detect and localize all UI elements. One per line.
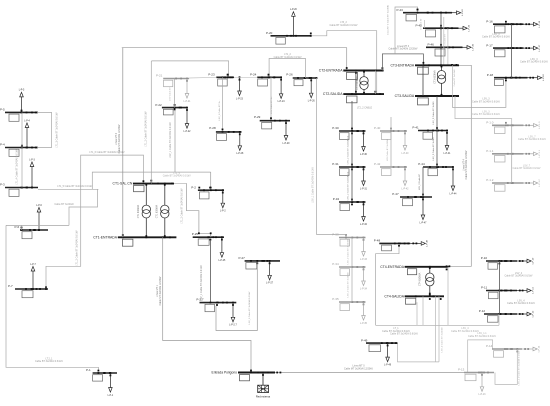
busbar CT1-ENTRADA bus (93, 234, 176, 246)
svg-text:P-3: P-3 (0, 183, 5, 187)
wire CT2 internal tie (355, 71, 357, 95)
wire CT2 tie 2 (374, 71, 376, 95)
label label cable sv (169, 86, 171, 101)
svg-text:CT2-SALIDA: CT2-SALIDA (323, 92, 343, 96)
label label cable c2 (271, 96, 273, 114)
wire long cable west (6, 225, 98, 370)
svg-text:LT1_5 Cable BT 3x240Al 0.6/1: LT1_5 Cable BT 3x240Al 0.6/1kV (57, 185, 93, 188)
wire cable P-10/P-11 (498, 261, 500, 291)
svg-text:Cable BT 3x240Al 0.6/1kV: Cable BT 3x240Al 0.6/1kV (482, 36, 510, 39)
wire cable SAL to P-25 (187, 183, 212, 237)
load node P-49 (361, 338, 398, 366)
busbar CT1-SAL.CN bus (113, 180, 174, 192)
svg-text:L-P-43: L-P-43 (462, 9, 464, 16)
svg-text:P-21: P-21 (156, 74, 163, 78)
svg-text:P-25: P-25 (192, 232, 199, 236)
svg-text:L-P-1.2: L-P-1.2 (539, 179, 541, 187)
svg-text:LT1_2 Cable BT 3x240Al 0.6/1k: LT1_2 Cable BT 3x240Al 0.6/1kV (76, 230, 79, 266)
supply point Entrada Polígono (212, 370, 275, 381)
label label LSV_4 d (507, 299, 535, 305)
wire CT3 tie 2 (452, 65, 454, 96)
wire cable gray col b (511, 154, 513, 183)
svg-text:P-20: P-20 (266, 31, 273, 35)
svg-text:L-P-46: L-P-46 (473, 43, 475, 50)
svg-text:LT2_2 CABLE: LT2_2 CABLE (357, 107, 373, 110)
svg-text:L-P-21: L-P-21 (184, 101, 192, 103)
svg-text:Cable BT 3x240Al 0.6/1kV: Cable BT 3x240Al 0.6/1kV (274, 56, 302, 59)
wire linea MT 3 CT2-CT3 (382, 54, 423, 71)
label label LSV_2a (346, 135, 349, 164)
svg-text:L-P-30: L-P-30 (360, 154, 368, 156)
svg-text:P-22: P-22 (155, 103, 162, 107)
wire cable LT bottom (376, 324, 499, 326)
wire P-6 stub (21, 225, 23, 230)
load node P-24 (250, 73, 285, 104)
load node P-13 (458, 368, 494, 396)
svg-text:L-P-1.0: L-P-1.0 (539, 121, 541, 129)
load node P-1 (86, 368, 117, 397)
wire cable riser N2 (424, 20, 426, 28)
wire cable rect1 top (152, 61, 229, 78)
wire CT4 salida down b (422, 296, 424, 325)
svg-text:Cable BT 3x240Al 0.6/1kV: Cable BT 3x240Al 0.6/1kV (472, 100, 500, 103)
svg-text:CT4-ENTRADA: CT4-ENTRADA (380, 265, 404, 269)
wire P-3 east cable (38, 188, 98, 190)
wire cable P-12 feed (498, 314, 500, 325)
load node P-2 (191, 185, 226, 212)
load node P-11 (481, 286, 535, 299)
transformer CT1 T2 (156, 184, 169, 238)
svg-text:Cable BT 3x240Al: Cable BT 3x240Al (54, 203, 74, 206)
svg-text:LSV_2 Cable BT 3x240Al: LSV_2 Cable BT 3x240Al (346, 239, 349, 264)
label label riser n2 (421, 18, 423, 30)
svg-text:CT4-SALIDA: CT4-SALIDA (384, 294, 404, 298)
wire CT3 internal tie (422, 65, 424, 96)
wire cable P-43 down (440, 13, 442, 66)
label linea MT 0 label (344, 365, 373, 371)
svg-text:P-12: P-12 (479, 309, 486, 313)
svg-text:P-31: P-31 (332, 162, 339, 166)
load node P-27 (239, 256, 281, 285)
wire cable to P-6 (6, 224, 69, 226)
wire cable riser CT3 a (443, 17, 445, 65)
svg-text:LSV Cable BT 3x..: LSV Cable BT 3x.. (271, 96, 273, 114)
svg-text:LSV_4 Cable BT 3x240Al: LSV_4 Cable BT 3x240Al (441, 327, 444, 352)
svg-text:P-28: P-28 (209, 126, 216, 130)
load node P-22 (155, 103, 191, 133)
svg-text:P-44: P-44 (418, 162, 425, 166)
svg-text:LT1_2 Cable BT 3x240Al 0.6/1k: LT1_2 Cable BT 3x240Al 0.6/1kV (144, 111, 147, 147)
load node P-7 (8, 264, 48, 298)
svg-text:L-P-40: L-P-40 (402, 153, 410, 155)
load node P-29 (254, 115, 290, 145)
load node P-48 (374, 239, 429, 251)
svg-text:L-P-35: L-P-35 (360, 323, 368, 325)
svg-text:Entrada Polígono: Entrada Polígono (212, 371, 238, 375)
svg-text:P-47: P-47 (392, 192, 399, 196)
wire cable feed P-2 (210, 172, 212, 190)
transformer CT2 (356, 71, 368, 95)
label cable LT2_2 (357, 107, 373, 110)
busbar CT4-ENTRADA bus (380, 265, 450, 275)
load node P-5 (0, 90, 38, 122)
svg-text:LSV_2 Cable BT 3x240Al: LSV_2 Cable BT 3x240Al (346, 272, 349, 297)
wire cable P-2.7 loop (216, 263, 257, 330)
label label lsv44 (433, 137, 435, 161)
svg-text:CT4 630kVA: CT4 630kVA (419, 272, 422, 286)
svg-text:L-P-31: L-P-31 (360, 188, 368, 190)
svg-text:L-P-1.1: L-P-1.1 (539, 149, 541, 157)
external grid symbol Red externa (256, 373, 271, 399)
svg-text:L-P-32: L-P-32 (360, 224, 368, 226)
wire cable P-34/P-35 (351, 267, 353, 302)
transformer CT3 (433, 65, 445, 96)
label label LSV_4b (451, 327, 479, 333)
load node P-34 (332, 262, 367, 290)
transformer CT1 T1 (137, 184, 150, 238)
svg-text:LT1_2 Cable BT 3x240Al 0.6/1k: LT1_2 Cable BT 3x240Al 0.6/1kV (180, 188, 183, 224)
wire linea MT 3 (CT1 feeder) (122, 48, 124, 238)
svg-text:L-P-2.7: L-P-2.7 (229, 325, 237, 327)
wire cable P-16/P-17 (511, 24, 513, 48)
svg-text:LSV_3 Cable BT: LSV_3 Cable BT (419, 173, 421, 190)
svg-text:CT3-ENTRADA: CT3-ENTRADA (390, 63, 414, 67)
svg-text:L-P-22: L-P-22 (184, 131, 192, 133)
svg-text:L-P-7: L-P-7 (30, 264, 36, 266)
wire cable SAL ext (174, 182, 187, 184)
svg-text:P-1.1: P-1.1 (486, 149, 494, 153)
svg-text:P-30: P-30 (332, 126, 339, 130)
svg-text:L-P-44: L-P-44 (450, 193, 458, 195)
svg-text:L-P-12: L-P-12 (533, 310, 535, 317)
svg-text:Cable BT 3x240Al 0.6/1kV: Cable BT 3x240Al 0.6/1kV (390, 332, 418, 335)
wire cable CT3 to P-41 (436, 96, 438, 131)
svg-text:LT1_3 Cable BT 3x240Al 0.6/1k: LT1_3 Cable BT 3x240Al 0.6/1kV (56, 112, 59, 148)
svg-text:Cable BT 3x240Al 0.6/1kV: Cable BT 3x240Al 0.6/1kV (518, 138, 546, 141)
load node P-6 (15, 205, 49, 239)
svg-text:L-P-1: L-P-1 (108, 395, 114, 397)
svg-text:L-P-24: L-P-24 (278, 101, 286, 103)
wire CT4 salida down a (416, 302, 418, 325)
svg-text:LSV_1 Cable BT 3x240Al 0.6/1k: LSV_1 Cable BT 3x240Al 0.6/1kV (169, 122, 172, 158)
wire cable LT3_2 (312, 31, 377, 94)
load node P-30 (332, 126, 367, 156)
svg-text:L-P-33: L-P-33 (360, 259, 368, 261)
load node P-1.2 (486, 178, 541, 191)
label label ct3 tie cable (453, 69, 456, 86)
svg-text:L-P-34: L-P-34 (360, 288, 368, 290)
svg-text:LSV_1.2 Cable BT 3x240Al 0.6/1: LSV_1.2 Cable BT 3x240Al 0.6/1kV (518, 350, 521, 385)
wire P-5 to P-4 cable a (21, 112, 23, 147)
svg-text:L-P-4: L-P-4 (24, 120, 30, 122)
wire cable P-40/P-42 (390, 131, 392, 167)
svg-text:P-41: P-41 (412, 126, 419, 130)
label label LSV_7 a (518, 136, 546, 142)
busbar CT3-SALIDA bus (395, 94, 459, 105)
svg-text:L-P-11: L-P-11 (533, 287, 535, 294)
svg-text:P-27: P-27 (239, 256, 246, 260)
svg-text:CT2-ENTRADA: CT2-ENTRADA (319, 69, 343, 73)
label cable LT3_2 label (330, 21, 358, 27)
label label lsv w (386, 138, 389, 161)
svg-text:P-10: P-10 (481, 256, 488, 260)
label cable ring label (56, 112, 59, 148)
svg-text:L-P-20: L-P-20 (290, 9, 298, 11)
wire cable P-33/P-34 (351, 238, 353, 268)
label cable LT1_5 label (163, 172, 191, 178)
wire jumper P-21/P-23 (189, 76, 216, 79)
svg-text:P-16: P-16 (486, 19, 493, 23)
wire cable P-31/P-32 (351, 167, 353, 202)
svg-text:P-11: P-11 (481, 286, 487, 290)
wire cable P-26 to P-33 (317, 78, 347, 238)
label label LSV_3 b (520, 58, 548, 64)
svg-text:L-P-49: L-P-49 (384, 364, 392, 366)
wire CT4 salida down d (438, 296, 440, 362)
svg-text:L-P-28: L-P-28 (236, 153, 244, 155)
label cable LT1_2 label (76, 230, 79, 266)
svg-text:Cable MT 3x240Al 12/20kV: Cable MT 3x240Al 12/20kV (388, 48, 417, 51)
wire cable P-11/P-12 (498, 291, 500, 315)
svg-text:L-P-41: L-P-41 (444, 153, 452, 155)
label label LSV_7 b (513, 164, 541, 170)
label linea MT 3 label (388, 45, 417, 51)
label cable LT.2_1 (35, 357, 63, 363)
svg-text:P-35: P-35 (332, 297, 339, 301)
svg-text:CT1 630kVA: CT1 630kVA (137, 205, 140, 219)
wire CT4 salida down c (435, 296, 437, 362)
load node P-40 (374, 126, 409, 155)
transformer CT4 (419, 267, 434, 297)
wire cable P-48 down (376, 246, 399, 325)
wire cable CT1 riser LSV (150, 61, 152, 184)
label label cable LSV_1c (200, 265, 203, 301)
svg-text:P-1: P-1 (86, 368, 91, 372)
load node P-16 (486, 19, 541, 33)
svg-text:L-P-26: L-P-26 (308, 101, 316, 103)
wire cable loop br (468, 340, 493, 373)
svg-text:L-P-5: L-P-5 (19, 90, 25, 92)
wire cable P-44/P-47 (422, 167, 424, 197)
label cable P4-P3 label (16, 149, 19, 185)
load node P-33 (332, 233, 367, 261)
svg-text:LSV_3 Cable BT 3x240: LSV_3 Cable BT 3x240 (433, 101, 435, 125)
svg-text:Red externa: Red externa (256, 394, 271, 398)
svg-text:L-P-25: L-P-25 (218, 260, 226, 262)
svg-text:P-1.0: P-1.0 (486, 121, 494, 125)
wire linea MT 4 CT3-CT4 (449, 65, 472, 266)
svg-text:P-18: P-18 (487, 73, 494, 77)
load node P-42 (374, 162, 409, 190)
busbar CT3-ENTRADA bus (390, 62, 459, 74)
svg-text:P-13: P-13 (458, 368, 465, 372)
wire cable P-14 down (495, 349, 517, 384)
label label LSV_4 c (505, 272, 533, 278)
svg-text:Cable BT 3x240Al 0.6/1kV: Cable BT 3x240Al 0.6/1kV (163, 175, 191, 178)
label label LT_1 (382, 327, 410, 333)
svg-text:L-P-47: L-P-47 (420, 222, 428, 224)
svg-text:Cable BT 3x240Al 0.6/1kV: Cable BT 3x240Al 0.6/1kV (513, 167, 541, 170)
wire cable P-3 to P-2 net (92, 172, 210, 189)
load node P-45 (416, 23, 471, 37)
svg-text:Cable MT 3x240Al 12/20kV: Cable MT 3x240Al 12/20kV (465, 150, 468, 179)
load node P-4 (0, 120, 38, 156)
svg-text:CT1 630kVA: CT1 630kVA (156, 205, 159, 219)
wire CT4 east edge (447, 267, 449, 326)
wire cable LSV_2 head (351, 101, 353, 131)
label label cable LSV_1a (169, 122, 172, 158)
wire cable P-22 down (174, 108, 176, 173)
svg-text:LSV_3 Cable BT 3x240: LSV_3 Cable BT 3x240 (433, 137, 435, 161)
label cable bt49 (390, 332, 418, 335)
svg-text:P-2: P-2 (191, 185, 196, 189)
label cable LT1_5 (57, 185, 93, 188)
svg-text:CT3-SALIDA: CT3-SALIDA (395, 94, 415, 98)
wire P-5 to P-4 cable b (ring) (37, 112, 52, 147)
svg-text:L-P-10: L-P-10 (533, 257, 535, 264)
load node P-28 (209, 126, 244, 155)
svg-text:L-P-13: L-P-13 (479, 394, 487, 396)
svg-text:Línea MT 3 Cable MT 3x240Al: Línea MT 3 Cable MT 3x240Al (387, 5, 390, 35)
svg-text:P-40: P-40 (374, 126, 381, 130)
svg-text:P-32: P-32 (333, 197, 340, 201)
svg-text:Cable BT 3x240Al 0.6/1kV: Cable BT 3x240Al 0.6/1kV (507, 302, 535, 305)
svg-text:P-7: P-7 (8, 284, 13, 288)
svg-text:L-P-3: L-P-3 (29, 159, 35, 161)
load node P-46 (426, 43, 475, 57)
svg-text:Cable BT 3x240Al 0.6/1kV: Cable BT 3x240Al 0.6/1kV (472, 113, 500, 116)
label label lsv14 (518, 350, 521, 385)
svg-text:P-42: P-42 (374, 162, 381, 166)
svg-text:CT3 630kVA: CT3 630kVA (433, 70, 436, 84)
svg-text:Cable BT 3x240Al 0.6/1kV: Cable BT 3x240Al 0.6/1kV (35, 360, 63, 363)
svg-text:LT1_4 Cable BT 3x240Al 0.6/1k: LT1_4 Cable BT 3x240Al 0.6/1kV (16, 149, 19, 185)
label label cable c1 (219, 99, 221, 120)
label label LSV_1 long (311, 167, 314, 203)
svg-text:P-46: P-46 (428, 43, 435, 47)
svg-text:L-P-18: L-P-18 (543, 74, 545, 81)
svg-text:P-29: P-29 (254, 115, 261, 119)
wire cable rect2 (268, 59, 306, 79)
load node P-18 (487, 73, 545, 86)
label label lsv41 (433, 101, 435, 125)
svg-text:LSV_1 Cable BT 3x240Al 0.6/1k: LSV_1 Cable BT 3x240Al 0.6/1kV (311, 167, 314, 203)
wire cable P-40 feed (390, 117, 392, 131)
wire linea MT 0 main (275, 372, 464, 374)
label label LSV_2c (346, 239, 349, 264)
svg-text:Cable BT 3x240Al 0.6/1kV: Cable BT 3x240Al 0.6/1kV (451, 330, 479, 333)
load node P-41 (412, 126, 451, 155)
svg-text:L-P-17: L-P-17 (539, 44, 541, 51)
load node P-23 (208, 73, 243, 101)
svg-text:Cable BT 3x240Al 0.6/1kV: Cable BT 3x240Al 0.6/1kV (520, 61, 548, 64)
label label LSV_1.1 (468, 332, 496, 338)
label label LSV_3 n1 (472, 98, 500, 104)
load node P-25 (192, 232, 226, 262)
load node P-12 (479, 309, 535, 322)
svg-text:L-P-42: L-P-42 (402, 188, 410, 190)
wire cable P-24 down (270, 77, 272, 121)
label label LSV_2b (346, 171, 349, 200)
svg-text:P-24: P-24 (250, 73, 257, 77)
label label linea MT 1 (156, 276, 162, 305)
load node P-14 (486, 344, 541, 357)
svg-text:P-5: P-5 (0, 108, 5, 112)
svg-text:P-6: P-6 (15, 225, 20, 229)
load node P-32 (333, 197, 368, 226)
svg-text:Cable MT 3x240Al 12/20kV: Cable MT 3x240Al 12/20kV (344, 367, 373, 370)
busbar CT2-ENTRADA bus (319, 67, 384, 79)
svg-text:L-P-48: L-P-48 (427, 239, 429, 246)
busbar CT2-SALIDA bus (323, 91, 384, 103)
svg-text:P-2.7: P-2.7 (196, 297, 204, 301)
label label linea MT 4 (462, 150, 468, 179)
svg-text:P-43: P-43 (397, 8, 404, 12)
load node P-21 (156, 74, 191, 103)
label label cable LT1_2r (144, 111, 147, 147)
load node P-1.0 (486, 121, 541, 134)
svg-text:P-48: P-48 (374, 239, 381, 243)
svg-text:Cable MT 3x240Al 12/20kV: Cable MT 3x240Al 12/20kV (118, 124, 121, 153)
label linea MT label vertical (387, 5, 390, 35)
load node P-44 (418, 162, 457, 195)
label label lsv47 (419, 173, 421, 190)
label cable LT1_2b (274, 53, 302, 59)
svg-text:P-17: P-17 (486, 43, 493, 47)
load node P-20 (266, 9, 312, 44)
svg-text:P-1.2: P-1.2 (486, 178, 494, 182)
svg-text:Cable BT 3x240Al 0.6/1kV: Cable BT 3x240Al 0.6/1kV (330, 24, 358, 27)
svg-text:P-34: P-34 (332, 262, 339, 266)
wire cable top wrap (395, 7, 418, 54)
svg-text:P-26: P-26 (286, 73, 293, 77)
svg-text:L-P-2: L-P-2 (220, 211, 226, 213)
svg-text:L-P-23: L-P-23 (236, 98, 244, 100)
label label LSV_3 a (482, 33, 510, 39)
load node P-31 (332, 162, 367, 190)
wire cable P-41/P-44 (436, 131, 438, 168)
label cable LT1_1 (54, 203, 74, 206)
svg-text:LSV Cable BT 3x240Al: LSV Cable BT 3x240Al (386, 138, 389, 161)
load node P-2.7 (196, 297, 237, 326)
load node P-35 (332, 297, 367, 325)
svg-text:P-49: P-49 (361, 338, 368, 342)
svg-text:LSV_1 Cable BT 3x...: LSV_1 Cable BT 3x... (219, 99, 221, 120)
svg-text:LT Cable BT: LT Cable BT (421, 18, 423, 30)
label label cable loop (248, 291, 251, 324)
load node P-43 (397, 8, 465, 21)
svg-text:LSV_1 Cable BT 3x240Al 0.6/1k: LSV_1 Cable BT 3x240Al 0.6/1kV (248, 291, 251, 324)
svg-text:Cable BT 3x240Al 0.6/1kV: Cable BT 3x240Al 0.6/1kV (468, 335, 496, 338)
svg-text:LSV Cable BT: LSV Cable BT (169, 86, 171, 101)
label label riser a (445, 34, 447, 50)
wire cable P-30/P-31 (351, 131, 353, 167)
label cable LT1_6 (89, 151, 125, 154)
wire P-4 to P-3 cable (21, 148, 23, 188)
svg-text:L-P-29: L-P-29 (283, 143, 291, 145)
svg-text:P-4: P-4 (0, 143, 5, 147)
wire cable riser west (69, 189, 98, 225)
label label linea MT 3 (115, 124, 121, 153)
svg-text:LSV_2 Cable BT 3x240Al 0.6: LSV_2 Cable BT 3x240Al 0.6 (346, 135, 349, 164)
busbar CT4-SALIDA bus (384, 293, 444, 305)
svg-text:CT2 630kVA: CT2 630kVA (356, 76, 359, 90)
label label LSV_3 n2 (472, 111, 500, 117)
svg-text:P-23: P-23 (208, 73, 215, 77)
svg-text:P-14: P-14 (486, 344, 493, 348)
load node P-3 (0, 159, 38, 196)
label label cable LT1_2c (180, 188, 183, 224)
